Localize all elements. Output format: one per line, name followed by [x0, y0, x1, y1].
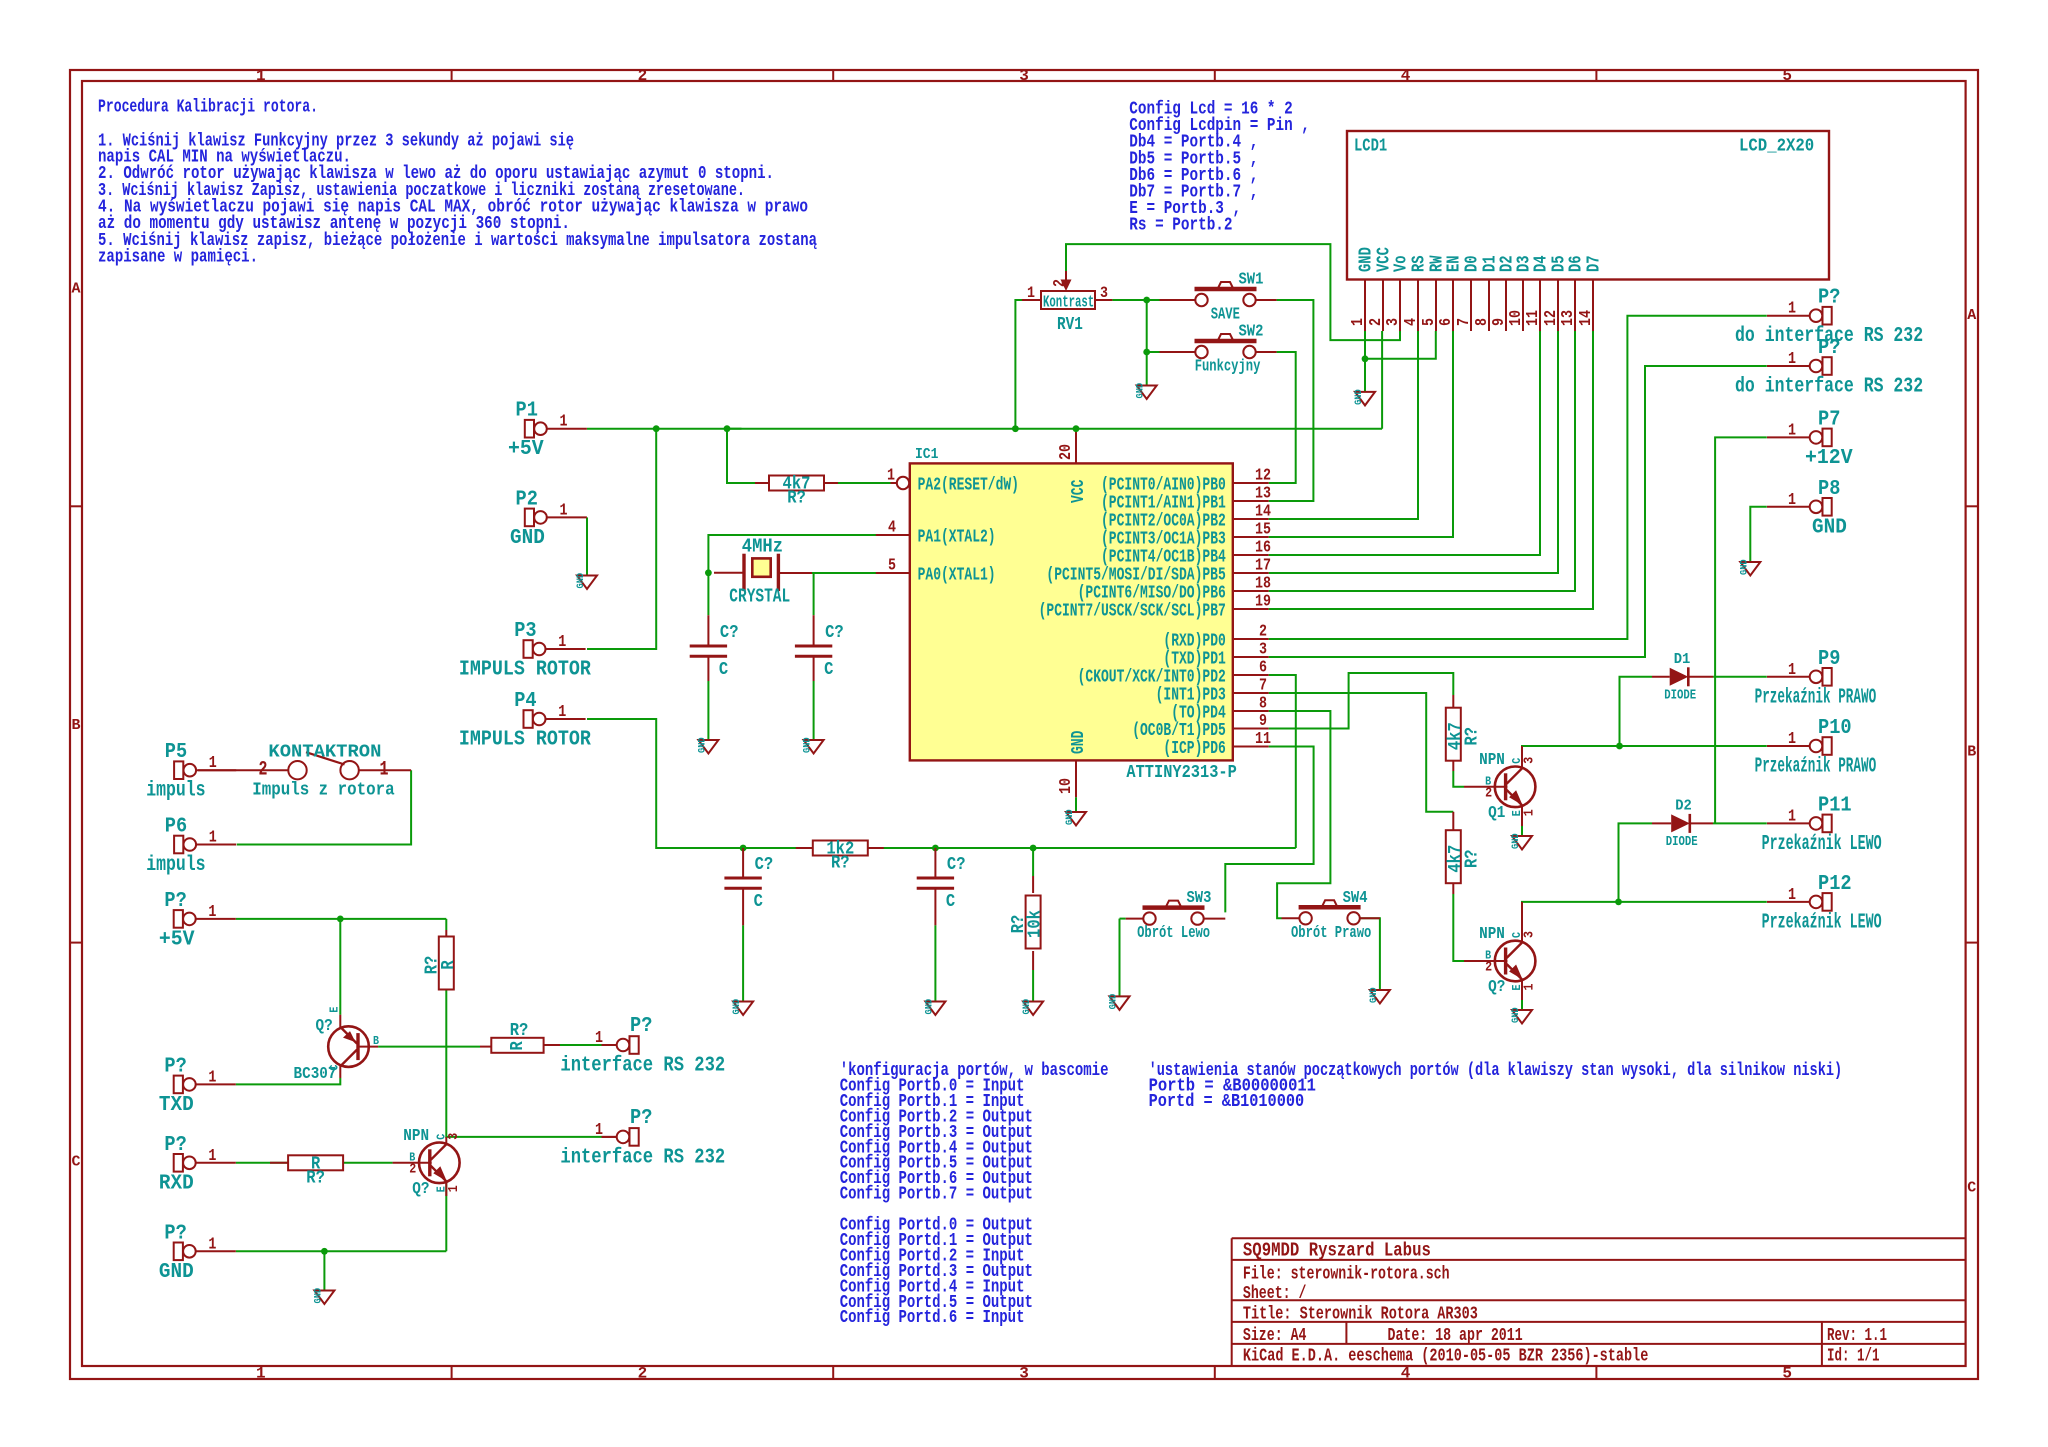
svg-text:Przekaźnik PRAWO: Przekaźnik PRAWO: [1755, 686, 1877, 709]
wire PD3 to R-base Q2: [1269, 693, 1454, 812]
svg-text:Przekaźnik LEWO: Przekaźnik LEWO: [1762, 911, 1882, 934]
svg-text:C: C: [328, 1065, 342, 1071]
wire SW4 right to ground: [1359, 918, 1380, 990]
transistor Q1 NPN: [1479, 751, 1538, 823]
lead reed switch: [198, 769, 411, 771]
junction SW2 row: [1143, 349, 1150, 356]
wire Q2 base link: [1453, 894, 1464, 961]
lead SW1 pins: [1160, 299, 1277, 301]
wire +5V rail: [587, 428, 1382, 430]
svg-text:NPN: NPN: [1479, 925, 1505, 944]
svg-text:PA0(XTAL1): PA0(XTAL1): [918, 566, 996, 586]
junction +5V/R-reset: [724, 425, 731, 432]
svg-text:R?: R?: [306, 1168, 325, 1188]
title block: [1232, 1238, 1966, 1367]
svg-text:C?: C?: [755, 855, 774, 875]
svg-text:Q?: Q?: [1488, 978, 1505, 997]
svg-text:C: C: [946, 892, 955, 912]
junction +5V/RV1: [1012, 425, 1019, 432]
svg-text:1: 1: [1788, 421, 1796, 440]
svg-text:GND: GND: [1368, 987, 1380, 1003]
svg-text:1: 1: [560, 413, 568, 432]
svg-text:R?: R?: [1462, 727, 1482, 746]
text note: procedura kalibracji rotora: [98, 97, 817, 268]
svg-text:GND: GND: [1064, 809, 1076, 825]
lead C2 top: [813, 615, 815, 646]
svg-text:P?: P?: [164, 1055, 186, 1078]
svg-text:GND: GND: [1353, 389, 1365, 405]
svg-text:19: 19: [1255, 593, 1271, 612]
svg-text:Portd = &B1010000: Portd = &B1010000: [1149, 1091, 1305, 1112]
svg-text:6: 6: [1259, 659, 1267, 678]
ground (C3): [731, 999, 753, 1015]
svg-text:GND: GND: [923, 999, 935, 1015]
svg-text:KONTAKTRON: KONTAKTRON: [268, 743, 381, 763]
wire P4 down to C-rail: [587, 719, 1296, 848]
svg-text:P4: P4: [514, 690, 536, 713]
connector P7: [1767, 408, 1853, 470]
wire Q1 collector net to P10: [1522, 746, 1767, 766]
connector P8: [1767, 478, 1847, 540]
lead Q4 base: [393, 1162, 432, 1164]
svg-text:Sheet: /: Sheet: /: [1243, 1284, 1307, 1304]
svg-text:R: R: [508, 1041, 528, 1050]
text note: ustawienia stanow: [1149, 1060, 1843, 1112]
svg-text:11: 11: [1524, 310, 1543, 326]
svg-text:(INT1)PD3: (INT1)PD3: [1156, 686, 1226, 706]
svg-text:2: 2: [1485, 785, 1492, 801]
wire crystal right to C2: [813, 573, 815, 615]
svg-text:GND: GND: [312, 1288, 324, 1304]
wire P5 reed to P6: [237, 770, 411, 844]
svg-text:B: B: [373, 1034, 379, 1048]
svg-text:impuls: impuls: [146, 780, 205, 803]
wire GND bottom rail: [236, 1250, 446, 1252]
connector P?: [1735, 337, 1923, 399]
svg-text:DIODE: DIODE: [1664, 687, 1696, 703]
svg-text:Title: Sterownik Rotora AR303: Title: Sterownik Rotora AR303: [1243, 1304, 1478, 1325]
lead SW4 pins: [1282, 917, 1380, 919]
svg-text:(TXD)PD1: (TXD)PD1: [1163, 650, 1226, 670]
lead Q2 emitter: [1521, 981, 1523, 1001]
svg-text:Date: 18 apr 2011: Date: 18 apr 2011: [1388, 1326, 1523, 1346]
svg-text:D6: D6: [1567, 255, 1587, 272]
svg-text:do interface RS 232: do interface RS 232: [1735, 376, 1923, 399]
wire R-reset left: [727, 428, 742, 430]
capacitor C? (right on rail): [917, 855, 966, 912]
lead SW2 pins: [1160, 351, 1277, 353]
svg-text:Config Portd.6 = Input: Config Portd.6 = Input: [840, 1307, 1025, 1328]
wire SW2 left stub: [1147, 351, 1160, 353]
wire Q3 collector to TXD: [236, 1078, 340, 1084]
wire R4 to interface P?: [544, 1044, 602, 1046]
junction rail/R10k: [1030, 845, 1037, 852]
wire P7 +12V down: [1715, 437, 1767, 823]
connector P10: [1755, 717, 1877, 779]
svg-text:Config Portb.7 = Output: Config Portb.7 = Output: [840, 1184, 1033, 1205]
wire R-reset to pin1 bubble: [838, 482, 891, 484]
svg-text:GND: GND: [510, 527, 545, 550]
junction LCD GND: [1362, 355, 1369, 362]
wire PD5 to R-base Q1: [1269, 673, 1454, 729]
wire SW1 left stub: [1147, 299, 1160, 301]
svg-text:P?: P?: [164, 1222, 186, 1245]
svg-text:Obrót Lewo: Obrót Lewo: [1137, 924, 1210, 943]
switch SW1 SAVE: [1195, 271, 1264, 325]
wire D2 cathode to P11: [1713, 822, 1767, 824]
resistor R? 4k7 (Q2 base): [1446, 830, 1483, 883]
wire RV1 wiper to LCD Vo: [1066, 244, 1400, 340]
ground (P2): [575, 573, 597, 589]
wire C2 to ground: [813, 681, 815, 740]
connector P9: [1755, 648, 1877, 710]
svg-text:3: 3: [1384, 318, 1403, 326]
junction rail/C4: [932, 845, 939, 852]
svg-text:(RXD)PD0: (RXD)PD0: [1163, 632, 1225, 652]
svg-text:GND: GND: [1812, 516, 1847, 539]
capacitor C? (XTAL right): [795, 623, 844, 680]
svg-text:8: 8: [1259, 695, 1267, 714]
svg-text:4: 4: [888, 519, 896, 538]
transistor Q? NPN (lower): [1479, 925, 1538, 997]
svg-text:P6: P6: [165, 816, 187, 839]
svg-text:(PCINT7/USCK/SCK/SCL)PB7: (PCINT7/USCK/SCK/SCL)PB7: [1039, 602, 1226, 622]
wire SW2 to PB0: [1269, 352, 1296, 483]
svg-text:CRYSTAL: CRYSTAL: [729, 586, 790, 608]
lead R-4k7a: [1452, 695, 1454, 771]
lead R-vert bottom: [445, 930, 447, 936]
lead Q3 collector: [339, 1065, 341, 1079]
ground (C2): [802, 737, 824, 753]
svg-text:7: 7: [1455, 318, 1474, 326]
wire LCD D4 to PB4: [1269, 331, 1540, 555]
wire D1 anode branch: [1620, 677, 1653, 746]
svg-text:PA1(XTAL2): PA1(XTAL2): [918, 528, 996, 548]
svg-text:Vo: Vo: [1392, 255, 1412, 272]
svg-text:13: 13: [1559, 310, 1578, 326]
wire R5 to Q2base: [343, 1162, 392, 1164]
svg-text:Obrót Prawo: Obrót Prawo: [1291, 924, 1371, 943]
svg-text:C?: C?: [825, 623, 844, 643]
svg-text:Size: A4: Size: A4: [1243, 1326, 1307, 1346]
resistor R? (pull-up R vertical): [422, 937, 459, 990]
svg-text:3: 3: [1259, 641, 1267, 660]
wire RV1 pin1 to +5V rail: [1015, 300, 1022, 429]
svg-text:16: 16: [1255, 539, 1271, 558]
svg-text:P?: P?: [630, 1015, 652, 1038]
svg-text:+5V: +5V: [508, 438, 544, 461]
wire P3 to +5V rail: [587, 429, 656, 649]
lead R4: [480, 1045, 560, 1047]
lead interface2 stub: [602, 1136, 617, 1138]
svg-text:interface RS 232: interface RS 232: [560, 1055, 725, 1078]
svg-text:P5: P5: [165, 741, 187, 764]
svg-text:File: sterownik-rotora.sch: File: sterownik-rotora.sch: [1243, 1265, 1450, 1285]
svg-text:1: 1: [256, 67, 266, 85]
svg-text:GND: GND: [1510, 1007, 1522, 1023]
wire Q2 collector net to P12: [1522, 902, 1767, 940]
svg-text:(PCINT0/AIN0)PB0: (PCINT0/AIN0)PB0: [1101, 476, 1226, 496]
svg-text:P3: P3: [514, 620, 536, 643]
svg-text:SW2: SW2: [1239, 323, 1264, 342]
wire R10k top: [1032, 848, 1034, 876]
svg-text:B: B: [71, 717, 80, 734]
ground (SW column): [1135, 383, 1157, 399]
svg-text:P11: P11: [1818, 794, 1852, 817]
svg-text:1: 1: [1788, 661, 1796, 680]
transistor Q? NPN (RS232): [403, 1127, 462, 1199]
junction +5V/VCC20: [1073, 425, 1080, 432]
svg-text:18: 18: [1255, 575, 1271, 594]
svg-text:R?: R?: [1462, 849, 1482, 868]
svg-text:(PCINT4/OC1B)PB4: (PCINT4/OC1B)PB4: [1101, 548, 1226, 568]
svg-text:Id: 1/1: Id: 1/1: [1827, 1347, 1880, 1367]
wire LCD D5 to PB5: [1269, 331, 1558, 573]
svg-text:Procedura Kalibracji rotora.: Procedura Kalibracji rotora.: [98, 97, 318, 118]
svg-text:17: 17: [1255, 557, 1271, 576]
lead R4-P stub: [602, 1044, 617, 1046]
wire XTAL1 pin5: [812, 572, 876, 574]
wire PD4 to SW4: [1269, 711, 1331, 918]
connector P?: [159, 1055, 236, 1117]
svg-text:C: C: [1967, 1180, 1976, 1197]
lead D1: [1652, 676, 1713, 678]
svg-text:C: C: [71, 1153, 80, 1170]
capacitor C? (left on rail): [724, 855, 773, 912]
svg-text:10: 10: [1057, 778, 1076, 794]
svg-text:R?: R?: [1009, 915, 1029, 934]
svg-text:P?: P?: [1818, 337, 1840, 360]
svg-text:20: 20: [1057, 444, 1076, 460]
wire LCD D6 to PB6: [1269, 331, 1575, 591]
svg-text:1: 1: [558, 703, 566, 722]
svg-text:E: E: [328, 1007, 342, 1013]
svg-text:D1: D1: [1674, 651, 1691, 668]
wire Q2 emitter to ground: [1521, 1000, 1523, 1010]
svg-text:1: 1: [1349, 318, 1368, 326]
lead Q3 base: [357, 1046, 379, 1048]
svg-text:(PCINT5/MOSI/DI/SDA)PB5: (PCINT5/MOSI/DI/SDA)PB5: [1046, 566, 1225, 586]
wire LCD EN to PB3: [1269, 331, 1453, 537]
capacitor C? (XTAL left): [690, 623, 739, 680]
ground (Q2): [1510, 1007, 1532, 1023]
svg-text:PA2(RESET/dW): PA2(RESET/dW): [918, 476, 1019, 496]
svg-text:13: 13: [1255, 485, 1271, 504]
lead SW3 pins: [1126, 918, 1226, 920]
lead C4: [934, 848, 936, 925]
wire Q3 base to R4: [378, 1046, 480, 1048]
switch SW3 Obrot Lewo: [1137, 889, 1211, 943]
resistor R? 4k7 (reset pull-up): [769, 475, 824, 509]
wire SW column to ground: [1146, 352, 1148, 386]
resistor R? (RXD series): [288, 1154, 343, 1188]
lead R-1k2: [796, 847, 884, 849]
connector P1: [508, 400, 587, 462]
svg-text:RXD: RXD: [159, 1172, 194, 1195]
svg-text:C: C: [754, 892, 763, 912]
svg-text:2: 2: [638, 1365, 648, 1383]
svg-text:1: 1: [209, 754, 217, 773]
wire LCD D7 to PB7: [1269, 331, 1593, 609]
svg-text:SW1: SW1: [1239, 271, 1264, 290]
ground (bottom): [312, 1288, 334, 1304]
connector P12: [1762, 873, 1882, 935]
lead C1 top: [707, 615, 709, 646]
wire LCD VCC to +5V rail: [1381, 331, 1383, 429]
lead C3: [742, 848, 744, 925]
svg-text:VCC: VCC: [1069, 479, 1089, 503]
svg-text:1: 1: [1788, 300, 1796, 319]
wire R10k bottom to ground: [1032, 970, 1034, 1002]
svg-text:4MHz: 4MHz: [742, 536, 783, 558]
text note: config lcd: [1129, 99, 1310, 236]
svg-text:1: 1: [1788, 807, 1796, 826]
resistor R? 1k2: [813, 840, 868, 874]
svg-text:GND: GND: [159, 1261, 194, 1284]
diode D2: [1666, 797, 1698, 850]
svg-text:D4: D4: [1532, 255, 1552, 272]
wire P8 GND: [1750, 507, 1767, 562]
svg-text:1: 1: [208, 1147, 216, 1166]
wire Q1 emitter to ground: [1521, 826, 1523, 836]
svg-text:1: 1: [208, 1235, 216, 1254]
svg-text:R?: R?: [831, 854, 850, 874]
svg-text:zapisane w pamięci.: zapisane w pamięci.: [98, 247, 258, 268]
lead Q2 base: [1464, 960, 1507, 962]
ground (P8): [1738, 559, 1760, 575]
connector P11: [1762, 794, 1882, 856]
lead Q3 emitter: [339, 1015, 341, 1029]
svg-text:GND: GND: [1108, 994, 1120, 1010]
svg-text:SW4: SW4: [1343, 889, 1368, 908]
svg-text:IMPULS ROTOR: IMPULS ROTOR: [459, 729, 591, 752]
svg-text:2: 2: [1259, 623, 1267, 642]
junction crystal left: [705, 569, 712, 576]
svg-text:4: 4: [1402, 318, 1421, 326]
svg-text:impuls: impuls: [146, 854, 205, 877]
svg-text:DIODE: DIODE: [1666, 834, 1698, 850]
svg-text:EN: EN: [1445, 255, 1465, 272]
lead R-reset: [755, 482, 838, 484]
lead R5: [270, 1162, 288, 1164]
wire XTAL2 pin4: [708, 535, 875, 573]
svg-text:GND: GND: [802, 737, 814, 753]
wire SW1 to PB1: [1269, 300, 1314, 501]
svg-text:NPN: NPN: [1479, 751, 1505, 770]
resistor R? 4k7 (Q1 base): [1446, 708, 1483, 761]
IC LCD1 LCD_2X20 display module: [1347, 131, 1829, 331]
svg-text:7: 7: [1259, 677, 1267, 696]
lead R-4k7b: [1452, 812, 1454, 894]
IC U1 ATTINY2313-P microcontroller: [874, 429, 1271, 798]
svg-text:(PCINT1/AIN1)PB1: (PCINT1/AIN1)PB1: [1101, 494, 1226, 514]
svg-text:P2: P2: [516, 488, 538, 511]
svg-text:C?: C?: [720, 623, 739, 643]
ground (IC1): [1064, 809, 1086, 825]
svg-text:GND: GND: [696, 737, 708, 753]
svg-text:(OC0B/T1)PD5: (OC0B/T1)PD5: [1132, 721, 1226, 741]
svg-text:GND: GND: [1069, 730, 1089, 754]
lead Q4 emitter: [445, 1183, 447, 1196]
svg-text:(CKOUT/XCK/INT0)PD2: (CKOUT/XCK/INT0)PD2: [1078, 668, 1226, 688]
wire crystal left to C1: [707, 573, 709, 615]
svg-text:LCD_2X20: LCD_2X20: [1739, 137, 1814, 157]
svg-text:Q1: Q1: [1488, 804, 1505, 823]
svg-text:15: 15: [1255, 521, 1271, 540]
wire LCD GND down: [1364, 331, 1366, 392]
lead Q2 collector: [1521, 902, 1523, 941]
svg-text:GND: GND: [1357, 247, 1377, 272]
svg-text:1: 1: [446, 1185, 462, 1192]
svg-text:GND: GND: [1510, 833, 1522, 849]
svg-text:1: 1: [1788, 730, 1796, 749]
diode D1: [1664, 651, 1696, 704]
wire Q4 emitter down: [445, 1183, 447, 1251]
svg-text:1: 1: [208, 1068, 216, 1087]
svg-text:Przekaźnik PRAWO: Przekaźnik PRAWO: [1755, 756, 1877, 779]
svg-text:D2: D2: [1675, 797, 1692, 814]
wire rail to PD2 pin6: [1269, 675, 1296, 848]
svg-text:R?: R?: [787, 489, 806, 509]
svg-text:+5V: +5V: [159, 928, 195, 951]
svg-text:P?: P?: [630, 1107, 652, 1130]
wire SW3 left to ground: [1119, 919, 1121, 997]
wire C1 to ground: [707, 681, 709, 740]
connector P5: [146, 741, 236, 803]
wire D2 anode branch: [1619, 823, 1653, 902]
svg-text:(PCINT6/MISO/DO)PB6: (PCINT6/MISO/DO)PB6: [1078, 584, 1226, 604]
wire PD0 to RS232 P?: [1269, 316, 1767, 639]
wire SW column down: [1146, 300, 1148, 352]
svg-text:5: 5: [1782, 67, 1792, 85]
crystal X1 4MHz: [729, 536, 790, 608]
connector P?: [560, 1015, 725, 1078]
svg-text:P9: P9: [1818, 648, 1840, 671]
lead C2 bottom: [813, 656, 815, 681]
svg-text:P?: P?: [1818, 287, 1840, 310]
svg-text:1: 1: [1027, 284, 1035, 302]
wire rail to R-reset: [727, 429, 755, 483]
svg-text:1: 1: [595, 1121, 603, 1140]
wire C4 bottom to ground: [934, 925, 936, 1001]
svg-text:C?: C?: [947, 855, 966, 875]
svg-text:P1: P1: [516, 400, 538, 423]
wire Q3 emitter: [339, 919, 341, 1015]
ground (R10k): [1021, 999, 1043, 1015]
svg-text:GND: GND: [731, 999, 743, 1015]
junction RV1/SW1: [1143, 297, 1150, 304]
wire LCD GND to RW: [1365, 331, 1436, 359]
svg-text:Kontrast: Kontrast: [1043, 294, 1094, 313]
wire +5V bottom rail: [236, 918, 446, 920]
svg-text:Q?: Q?: [412, 1180, 429, 1199]
connector P?: [560, 1107, 725, 1169]
ground (SW3): [1108, 994, 1130, 1010]
svg-text:GND: GND: [1021, 999, 1033, 1015]
lead Q1 emitter: [1521, 806, 1523, 826]
connector P2: [510, 488, 587, 550]
svg-text:P?: P?: [164, 890, 186, 913]
svg-text:P10: P10: [1818, 717, 1852, 740]
svg-text:RV1: RV1: [1057, 315, 1083, 335]
svg-text:1: 1: [1522, 809, 1538, 816]
ground (C1): [696, 737, 718, 753]
wire P2 to ground: [586, 517, 588, 575]
svg-text:SW3: SW3: [1187, 889, 1212, 908]
svg-text:4: 4: [1401, 1365, 1411, 1383]
ground (LCD): [1353, 389, 1375, 405]
svg-text:3: 3: [446, 1133, 462, 1140]
